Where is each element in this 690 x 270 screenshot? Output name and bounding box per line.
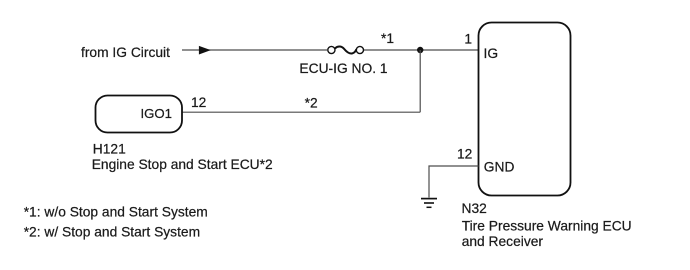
- svg-text:*2: *2: [305, 95, 318, 110]
- svg-text:12: 12: [457, 147, 472, 162]
- svg-text:Tire Pressure Warning ECU: Tire Pressure Warning ECU: [462, 218, 632, 233]
- svg-text:and Receiver: and Receiver: [462, 234, 544, 249]
- svg-text:*1: *1: [381, 31, 394, 46]
- svg-text:IGO1: IGO1: [140, 106, 172, 121]
- svg-text:12: 12: [191, 95, 206, 110]
- svg-text:ECU-IG NO. 1: ECU-IG NO. 1: [299, 61, 387, 76]
- svg-text:*1: w/o Stop and Start System: *1: w/o Stop and Start System: [24, 204, 208, 219]
- svg-text:GND: GND: [484, 159, 515, 174]
- svg-text:H121: H121: [93, 142, 126, 157]
- svg-text:Engine Stop and Start ECU*2: Engine Stop and Start ECU*2: [92, 157, 273, 172]
- svg-text:N32: N32: [462, 201, 487, 216]
- svg-text:*2: w/ Stop and Start System: *2: w/ Stop and Start System: [24, 225, 200, 240]
- svg-text:IG: IG: [484, 46, 499, 61]
- svg-text:from IG Circuit: from IG Circuit: [81, 45, 170, 60]
- svg-text:1: 1: [464, 32, 472, 47]
